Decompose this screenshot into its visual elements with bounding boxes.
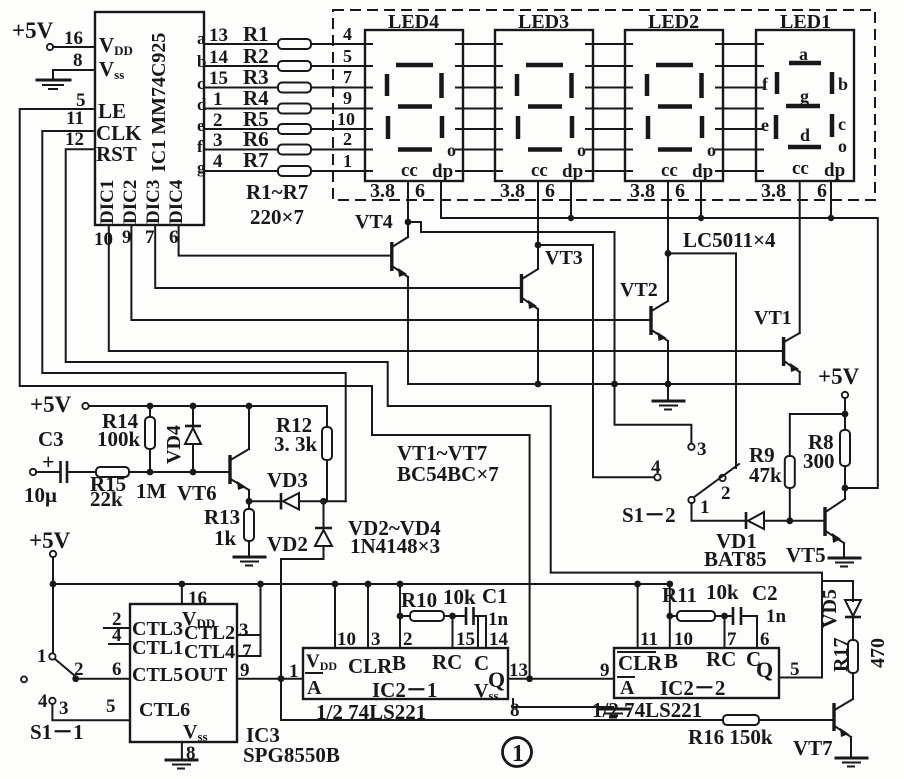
svg-text:6: 6 bbox=[415, 180, 425, 202]
svg-text:Q: Q bbox=[756, 657, 773, 682]
svg-text:R11: R11 bbox=[662, 583, 697, 607]
resistor R13 bbox=[204, 498, 254, 556]
svg-text:o: o bbox=[577, 140, 586, 160]
wire LE pin5 route to IC2-1 Q bbox=[20, 90, 530, 679]
+5V supply for IC1 pin16 bbox=[12, 18, 95, 50]
IC2-2 pin5 Q to display bus bbox=[779, 659, 822, 680]
svg-text:VT2: VT2 bbox=[620, 279, 658, 301]
svg-text:CLR: CLR bbox=[618, 651, 663, 675]
svg-text:14: 14 bbox=[209, 47, 229, 68]
svg-text:2: 2 bbox=[74, 659, 84, 680]
label VD2~VD4 type bbox=[348, 516, 441, 558]
svg-text:7: 7 bbox=[727, 629, 737, 650]
svg-text:c: c bbox=[197, 74, 205, 93]
svg-text:f: f bbox=[197, 137, 203, 156]
resistor R16 bbox=[281, 715, 834, 749]
svg-text:10: 10 bbox=[337, 109, 355, 129]
svg-text:1n: 1n bbox=[488, 609, 509, 630]
capacitor C3 electrolytic bbox=[24, 427, 96, 507]
svg-text:7: 7 bbox=[343, 67, 352, 87]
svg-text:a: a bbox=[197, 29, 206, 48]
svg-text:IC1 MM74C925: IC1 MM74C925 bbox=[148, 33, 170, 172]
svg-text:300: 300 bbox=[803, 449, 835, 473]
svg-text:6: 6 bbox=[760, 629, 770, 650]
transistor VT1 bbox=[754, 307, 800, 384]
svg-text:3.8: 3.8 bbox=[500, 180, 525, 202]
capacitor C2 bbox=[733, 581, 787, 650]
IC2-2 top pin risers bbox=[638, 584, 693, 650]
svg-text:11: 11 bbox=[640, 629, 658, 650]
svg-text:b: b bbox=[838, 74, 848, 94]
svg-text:RST: RST bbox=[96, 142, 137, 166]
diode VD2 bbox=[267, 501, 332, 559]
svg-text:R1~R7: R1~R7 bbox=[246, 180, 308, 204]
svg-text:dp: dp bbox=[562, 161, 583, 182]
wire LED3 cc down to VT3 collector bbox=[537, 181, 539, 245]
svg-text:DIC4: DIC4 bbox=[166, 179, 187, 224]
svg-text:CTL1: CTL1 bbox=[132, 637, 183, 659]
IC2-1 half 74LS221 bbox=[303, 648, 508, 703]
svg-text:2: 2 bbox=[343, 129, 352, 149]
svg-text:14: 14 bbox=[489, 629, 509, 650]
svg-text:VD2: VD2 bbox=[267, 532, 308, 556]
wire LED3 cc to S1-2 terminal 4 bbox=[538, 245, 654, 477]
resistors R1-R7 rows bbox=[197, 22, 365, 177]
svg-text:A: A bbox=[620, 677, 635, 699]
diode VD5 bbox=[819, 589, 861, 640]
svg-text:1: 1 bbox=[512, 741, 524, 767]
svg-text:d: d bbox=[197, 95, 207, 114]
svg-text:3: 3 bbox=[239, 620, 249, 641]
svg-text:2: 2 bbox=[213, 110, 223, 131]
emitter rail bbox=[408, 381, 800, 388]
transistor VT3 bbox=[522, 242, 583, 384]
wire DIC3 pin7 to VT3 base bbox=[145, 225, 522, 288]
svg-text:RC: RC bbox=[706, 647, 736, 671]
LED1 display with segment letters bbox=[756, 11, 854, 202]
wire DIC4 pin6 to VT4 base bbox=[169, 225, 392, 256]
svg-text:g: g bbox=[197, 158, 206, 177]
resistor R8 bbox=[803, 414, 850, 491]
wire LED2 cc to S1-2 terminal 2 bbox=[668, 253, 736, 468]
svg-text:A: A bbox=[307, 677, 322, 699]
wire RST pin12 route to VD5 branch bbox=[65, 129, 853, 678]
svg-text:15: 15 bbox=[456, 629, 475, 650]
wire LED1 cc down to VT1 collector bbox=[799, 181, 801, 333]
svg-text:+5V: +5V bbox=[29, 528, 71, 553]
svg-text:+: + bbox=[42, 449, 55, 474]
svg-text:o: o bbox=[707, 140, 716, 160]
wire LED2 cc down to VT2 collector bbox=[667, 181, 669, 253]
resistor R11 bbox=[662, 580, 739, 650]
svg-text:f: f bbox=[762, 74, 769, 94]
transistor VT2 bbox=[620, 250, 671, 384]
transistor VT7 bbox=[793, 673, 853, 760]
svg-text:+5V: +5V bbox=[30, 392, 72, 417]
svg-text:3.8: 3.8 bbox=[370, 180, 395, 202]
resistor R12 bbox=[274, 406, 332, 501]
svg-text:1: 1 bbox=[213, 89, 223, 110]
svg-text:R1: R1 bbox=[243, 22, 269, 46]
svg-text:11: 11 bbox=[66, 108, 84, 129]
svg-text:5: 5 bbox=[106, 696, 116, 717]
IC2-2 half 74LS221 bbox=[614, 647, 779, 700]
svg-text:IC2－1: IC2－1 bbox=[372, 678, 437, 702]
ground (emitter rail) bbox=[653, 384, 684, 410]
svg-text:VT5: VT5 bbox=[786, 543, 826, 567]
svg-text:DIC1: DIC1 bbox=[97, 180, 118, 224]
svg-text:IC2－2: IC2－2 bbox=[660, 676, 725, 700]
svg-text:4: 4 bbox=[112, 625, 122, 646]
svg-text:10k: 10k bbox=[706, 580, 739, 604]
svg-text:47k: 47k bbox=[749, 463, 782, 487]
svg-text:10: 10 bbox=[337, 629, 356, 650]
svg-text:4: 4 bbox=[213, 151, 223, 172]
diode VD1 BAT85 bbox=[704, 512, 824, 571]
circled figure number 1 bbox=[503, 738, 532, 768]
svg-text:CLR: CLR bbox=[348, 654, 393, 678]
svg-text:1: 1 bbox=[37, 646, 47, 667]
+5V supply for VT6 stage bbox=[30, 392, 327, 417]
svg-text:S1－1: S1－1 bbox=[30, 720, 84, 744]
svg-text:8: 8 bbox=[73, 50, 83, 71]
svg-text:VT7: VT7 bbox=[793, 736, 833, 760]
switch S1-2 bbox=[622, 439, 745, 527]
dashed module box LC5011x4 bbox=[333, 10, 875, 200]
svg-text:C2: C2 bbox=[752, 581, 778, 605]
svg-text:12: 12 bbox=[65, 129, 84, 150]
ground (R13) bbox=[234, 557, 265, 566]
svg-text:VT6: VT6 bbox=[177, 481, 217, 505]
svg-text:dp: dp bbox=[824, 160, 845, 181]
switch S1-1 bbox=[21, 584, 130, 744]
svg-text:VD4: VD4 bbox=[163, 425, 185, 464]
svg-text:10: 10 bbox=[94, 229, 113, 250]
svg-text:2: 2 bbox=[721, 483, 731, 504]
svg-text:3.8: 3.8 bbox=[630, 180, 655, 202]
LED2 display bbox=[625, 11, 723, 202]
svg-text:+5V: +5V bbox=[818, 364, 860, 389]
svg-text:e: e bbox=[761, 115, 769, 135]
svg-text:22k: 22k bbox=[90, 487, 123, 511]
svg-text:DIC2: DIC2 bbox=[120, 180, 141, 224]
ground (VT7) bbox=[836, 758, 867, 767]
svg-text:C: C bbox=[474, 651, 489, 675]
svg-text:R10: R10 bbox=[401, 588, 437, 612]
transistor VT5 bbox=[786, 488, 845, 567]
IC3 SPG8550B bbox=[104, 584, 303, 764]
IC1 pin8 VSS to ground bbox=[53, 50, 95, 79]
svg-text:8: 8 bbox=[510, 700, 520, 721]
svg-text:3: 3 bbox=[371, 629, 381, 650]
svg-text:SPG8550B: SPG8550B bbox=[243, 743, 340, 767]
svg-text:4: 4 bbox=[651, 457, 661, 478]
svg-text:VT3: VT3 bbox=[545, 247, 583, 269]
svg-text:1: 1 bbox=[289, 661, 299, 682]
svg-text:R16 150k: R16 150k bbox=[688, 725, 773, 749]
wire VD2 to trigger node bbox=[281, 559, 324, 679]
svg-text:C3: C3 bbox=[38, 427, 64, 451]
svg-text:dp: dp bbox=[432, 161, 453, 182]
resistor R10 bbox=[397, 585, 476, 650]
svg-text:RC: RC bbox=[432, 650, 462, 674]
svg-text:3. 3k: 3. 3k bbox=[274, 432, 318, 456]
svg-text:13: 13 bbox=[209, 25, 228, 46]
svg-text:2: 2 bbox=[403, 629, 413, 650]
svg-text:1/2 74LS221: 1/2 74LS221 bbox=[592, 698, 702, 722]
resistor R17 bbox=[830, 638, 889, 697]
svg-text:OUT: OUT bbox=[184, 664, 228, 686]
svg-text:cc: cc bbox=[531, 160, 548, 181]
svg-text:10: 10 bbox=[674, 629, 693, 650]
svg-text:9: 9 bbox=[343, 88, 352, 108]
svg-text:CTL5: CTL5 bbox=[132, 664, 183, 686]
diode VD3 bbox=[249, 468, 346, 510]
svg-text:10k: 10k bbox=[443, 585, 476, 609]
resistor R9 bbox=[749, 414, 845, 521]
svg-text:1: 1 bbox=[343, 151, 352, 171]
svg-text:9: 9 bbox=[122, 227, 132, 248]
svg-text:1: 1 bbox=[700, 497, 710, 518]
svg-text:3: 3 bbox=[213, 130, 223, 151]
wire CLK pin11 route to VD3 node bbox=[42, 108, 345, 501]
resistor R15 bbox=[90, 467, 230, 511]
svg-text:3: 3 bbox=[59, 698, 69, 719]
diode VD4 bbox=[163, 406, 201, 472]
svg-text:15: 15 bbox=[209, 68, 228, 89]
label R1~R7 value bbox=[246, 180, 308, 229]
svg-text:d: d bbox=[800, 125, 810, 145]
svg-text:16: 16 bbox=[64, 28, 83, 49]
svg-text:BC54BC×7: BC54BC×7 bbox=[397, 462, 499, 486]
svg-text:1N4148×3: 1N4148×3 bbox=[350, 534, 440, 558]
svg-text:9: 9 bbox=[600, 660, 610, 681]
wire DIC1 pin10 to VT1 base bbox=[94, 225, 784, 351]
svg-text:1M: 1M bbox=[136, 479, 167, 503]
svg-text:+5V: +5V bbox=[12, 18, 54, 43]
svg-text:LE: LE bbox=[98, 99, 126, 123]
+5V supply right bbox=[818, 364, 860, 420]
svg-text:o: o bbox=[447, 140, 456, 160]
svg-text:LC5011×4: LC5011×4 bbox=[683, 228, 776, 252]
svg-text:7: 7 bbox=[242, 641, 252, 662]
svg-text:BAT85: BAT85 bbox=[704, 547, 767, 571]
node trigger junction bbox=[278, 559, 285, 720]
ground (IC3 pin8) bbox=[166, 760, 197, 769]
svg-text:g: g bbox=[800, 86, 809, 106]
resistor R14 bbox=[97, 406, 155, 472]
svg-text:100k: 100k bbox=[97, 427, 141, 451]
segment bus wires between displays bbox=[463, 44, 756, 171]
svg-text:c: c bbox=[838, 114, 846, 134]
wire LED4 cc down to VT4 collector bbox=[407, 181, 409, 222]
svg-text:VT1: VT1 bbox=[754, 307, 792, 329]
transistor VT6 bbox=[177, 406, 249, 505]
svg-text:3: 3 bbox=[697, 439, 707, 460]
svg-text:VD5: VD5 bbox=[819, 589, 841, 628]
IC2-1 pin13 Q output line bbox=[508, 660, 614, 682]
svg-text:220×7: 220×7 bbox=[250, 205, 304, 229]
LED3 display bbox=[495, 11, 593, 202]
wire DIC2 pin9 to VT2 base bbox=[122, 225, 651, 320]
label IC3 part number bbox=[243, 723, 340, 767]
ground (IC1 VSS) bbox=[37, 80, 70, 89]
svg-text:C1: C1 bbox=[482, 584, 508, 608]
+5V supply bottom rail bbox=[29, 528, 673, 587]
svg-text:o: o bbox=[838, 136, 847, 156]
svg-text:6: 6 bbox=[169, 227, 179, 248]
svg-text:e: e bbox=[197, 116, 205, 135]
svg-text:B: B bbox=[392, 651, 406, 675]
svg-text:B: B bbox=[664, 649, 678, 673]
svg-text:470: 470 bbox=[867, 638, 889, 668]
label VT1~VT7 type bbox=[397, 441, 499, 486]
svg-text:cc: cc bbox=[401, 160, 418, 181]
svg-text:dp: dp bbox=[692, 161, 713, 182]
svg-text:cc: cc bbox=[792, 158, 809, 179]
svg-text:b: b bbox=[197, 52, 206, 71]
svg-text:7: 7 bbox=[145, 227, 155, 248]
svg-text:1n: 1n bbox=[766, 606, 787, 627]
transistor VT4 bbox=[355, 211, 411, 384]
svg-text:CTL4: CTL4 bbox=[184, 641, 235, 663]
capacitor C1 bbox=[466, 584, 509, 650]
wire VT4 collector jog to S1-2 pole branch bbox=[408, 222, 691, 443]
ground (VT5) bbox=[829, 558, 860, 567]
svg-text:R7: R7 bbox=[243, 148, 269, 172]
IC1 MM74C925 counter/driver bbox=[95, 12, 204, 225]
svg-text:DIC3: DIC3 bbox=[143, 180, 164, 224]
svg-text:6: 6 bbox=[817, 180, 827, 202]
svg-text:6: 6 bbox=[675, 180, 685, 202]
svg-text:S1－2: S1－2 bbox=[622, 503, 676, 527]
svg-text:6: 6 bbox=[112, 659, 122, 680]
pin6 bus of displays to R8 node bbox=[441, 181, 878, 488]
IC2-1 top pin risers bbox=[335, 584, 413, 650]
svg-text:10μ: 10μ bbox=[24, 483, 57, 507]
svg-text:CTL6: CTL6 bbox=[139, 699, 190, 721]
LED4 display bbox=[365, 11, 463, 202]
svg-text:4: 4 bbox=[38, 691, 48, 712]
svg-text:VD3: VD3 bbox=[267, 468, 308, 492]
svg-text:4: 4 bbox=[343, 24, 352, 44]
IC2-1 pin8 ground bbox=[510, 699, 629, 721]
svg-text:16: 16 bbox=[188, 588, 207, 609]
svg-text:3.8: 3.8 bbox=[761, 180, 786, 202]
svg-text:cc: cc bbox=[661, 160, 678, 181]
svg-text:6: 6 bbox=[545, 180, 555, 202]
svg-text:VT4: VT4 bbox=[355, 211, 393, 233]
svg-text:1k: 1k bbox=[214, 526, 237, 550]
svg-text:5: 5 bbox=[343, 46, 352, 66]
